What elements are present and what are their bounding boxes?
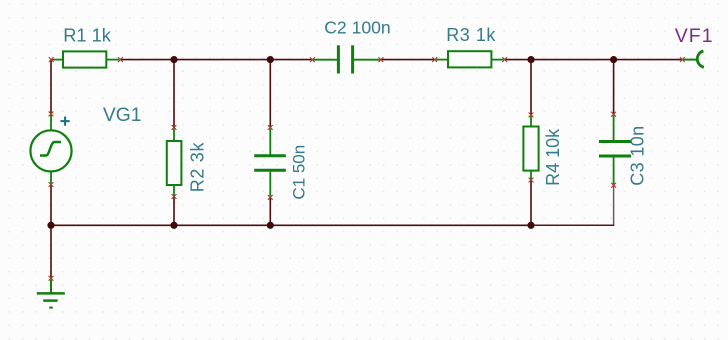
resistor R4: [523, 116, 538, 179]
wire C3 top: [613, 60, 615, 115]
svg-text:R4 10k: R4 10k: [543, 128, 563, 186]
wire top rail R2 node to C1 node: [174, 59, 270, 61]
wire top rail C1 node to C2 left: [270, 59, 312, 61]
pin marker ground: [49, 276, 54, 281]
pin marker R2 top: [172, 125, 177, 130]
wire bottom rail: [51, 224, 531, 226]
svg-text:R3 1k: R3 1k: [446, 25, 496, 45]
node R4 bottom junction: [527, 222, 534, 229]
wire C1 top: [269, 60, 271, 128]
svg-text:VG1: VG1: [103, 105, 142, 126]
VG1 plus polarity mark: [61, 117, 70, 126]
svg-text:R2 3k: R2 3k: [188, 141, 208, 192]
pin marker R4 top: [529, 113, 534, 118]
wire ground drop: [50, 225, 52, 278]
svg-text:C2 100n: C2 100n: [324, 18, 391, 38]
pin marker VG1 top: [49, 112, 54, 117]
wire VG1 top: [50, 60, 52, 114]
svg-text:R1 1k: R1 1k: [63, 24, 112, 45]
node R4 top junction: [527, 56, 534, 63]
wire C3 bottom to rail corner: [613, 185, 615, 225]
svg-text:C3 10n: C3 10n: [628, 126, 648, 186]
resistor R2: [167, 128, 182, 195]
capacitor C1: [254, 129, 286, 197]
pin marker C1 bottom: [268, 195, 273, 200]
wire top rail R1 to R2 node: [120, 59, 174, 61]
wire R3 right to R4 node: [505, 59, 531, 61]
voltage generator VG1: [30, 115, 71, 184]
wire R2 bottom: [173, 197, 175, 226]
pin marker C3 top: [611, 112, 616, 117]
pin marker C1 top: [268, 125, 273, 130]
wire R4 bottom: [530, 180, 532, 225]
pin marker R2 bottom: [172, 194, 177, 199]
wire C3 node to VF1: [614, 59, 683, 61]
resistor R3: [436, 51, 504, 67]
voltage probe VF1: [684, 51, 704, 67]
svg-text:VF1: VF1: [675, 25, 714, 47]
node ground junction: [47, 222, 54, 229]
capacitor C3: [599, 115, 631, 184]
pin marker R4 bottom: [529, 178, 534, 183]
pin marker VF1: [680, 57, 685, 62]
node R2 top junction: [170, 56, 177, 63]
node R2 bottom junction: [170, 222, 177, 229]
resistor R1: [52, 51, 119, 67]
pin marker R3 right: [502, 57, 507, 62]
wire R4 top: [530, 60, 532, 115]
svg-text:C1 50n: C1 50n: [289, 145, 308, 200]
wire C2 right to R3 left: [381, 59, 435, 61]
node C1 top junction: [267, 56, 274, 63]
wire C1 bottom: [269, 197, 271, 225]
wire R2 top: [173, 60, 175, 128]
pin marker R1 left: [49, 57, 54, 62]
pin marker R1 right: [118, 57, 123, 62]
capacitor C2: [313, 45, 379, 73]
wire R4 node to C3 node: [531, 59, 614, 61]
pin marker VG1 bottom: [49, 182, 54, 187]
pin marker C2 left: [310, 57, 315, 62]
wire VG1 bottom: [50, 185, 52, 226]
node C3 top junction: [610, 56, 617, 63]
pin marker C3 bottom: [611, 183, 616, 188]
node C1 bottom junction: [267, 222, 274, 229]
ground: [37, 280, 65, 308]
pin marker R3 left: [432, 57, 437, 62]
pin marker C2 right: [379, 57, 384, 62]
